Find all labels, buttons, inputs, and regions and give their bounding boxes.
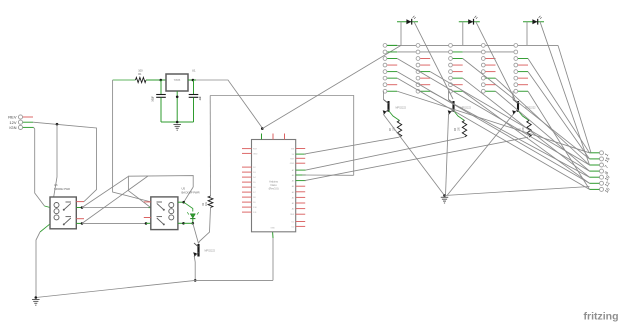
relay U6 pin stub NC2 (red) [76,218,84,220]
connector U3 stub pin 15 (green) [590,158,600,160]
transistor Q7 MPS2222 body [197,244,199,257]
wire segment fan 9 [430,72,589,165]
op-amp U2 Arduino Nano body [252,140,296,232]
svg-text:MPS2222: MPS2222 [205,250,216,253]
wire segment fan 10 [430,91,589,177]
svg-text:10uF: 10uF [152,96,155,102]
wire header bus row1 (gray) [397,44,558,46]
wire header supply bus row1 (green segment) [387,44,397,46]
wire IGN from pin [23,126,34,128]
LED D4 cathode diagonal [540,22,590,165]
wire 12V diagonal to vertical drop [33,122,97,201]
header J3 stub row1 (green) [387,44,397,46]
wire coil+ drop to relay U6 [54,124,58,198]
LED D3 anode drop to bus [462,22,464,46]
svg-text:12: 12 [604,180,611,187]
svg-text:U6: U6 [54,183,58,187]
wire Q2 emitter to ground [446,115,449,196]
wire segment fan 15 [558,45,591,152]
svg-text:7: 7 [604,164,610,169]
wire R2 to Q7 [199,208,211,244]
header J3 stub row7 (red) [387,84,397,86]
transistor Q2 MPS2222 body [452,101,454,112]
connector J2 pin REV [18,115,22,119]
arduino right pin stub D1 [296,221,306,223]
wire segment fan 7 [463,78,590,177]
relay U6 switch top [66,201,72,203]
wire loop into U5 output node [184,187,194,202]
wire regulator GND pin [176,91,178,122]
wire arduino D-pin to R5 base resistor [306,137,464,170]
LED D2 cathode diagonal [414,22,453,99]
arduino right pin stub A2 [296,196,306,198]
relay U5 output pin right upper [178,201,184,203]
arduino left pin stub 11 (red) [242,206,252,208]
wire Q7 emitter to ground rail [193,257,196,281]
header J7 stub row8 (green) [518,90,528,92]
capacitor C2 0.1uF [193,80,195,94]
transistor Q1 MPS2222 body [387,101,389,112]
relay U6 coil return wire to ground [40,224,50,232]
LED D4 anode drop to bus [526,22,528,46]
wire VIN node to header supply bus [262,45,401,128]
svg-text:180: 180 [458,126,460,131]
resistor R4 180 [462,121,466,138]
wire U6 to U5 upper [82,207,149,209]
LED D4 symbol [532,19,537,24]
header J4 stub row5 (green) [420,71,430,73]
relay U5 switch top [157,201,163,203]
header J7 stub row6 (red) [518,77,528,79]
relay U5 body [151,197,178,230]
header J4 pins [416,44,420,94]
connector U3 stub pin 16 (green) [590,188,600,190]
header J6 stub row4 (red) [486,64,496,66]
svg-text:100: 100 [138,69,143,73]
header J5 stub row4 (red) [453,64,463,66]
wire U5 output to LED1 anode [184,202,193,211]
wire header bus row2 [387,51,397,53]
header J7 stub row5 (green) [518,71,528,73]
wire loop top rail [128,176,193,187]
arduino right pin stub 5V [296,153,306,155]
arduino left pin stub 2 (red) [242,152,252,154]
wire VO to arduino VIN [196,80,262,128]
arduino right pin stub GND [296,162,306,164]
wire R1 to VI [146,79,166,81]
wire main ground to display connector [445,187,590,196]
wire header bus row2 continued [463,51,516,53]
arduino left pin stub 6 (red) [242,181,252,183]
wire U6 to U5 lower [82,222,146,224]
header J4 stub row3 (red) [420,58,430,60]
resistor R5 180 [527,121,531,138]
arduino left pin stub 1 (red) [242,148,252,150]
header J3 stub row6 (green) [387,77,397,79]
svg-text:R4: R4 [455,127,457,131]
resistor R1 100 [136,77,147,82]
relay U6 common pin 2 [76,222,82,224]
wire segment fan 2 [528,72,590,159]
LED D3 wire [459,21,480,23]
arduino left pin stub 8 (red) [242,191,252,193]
wire ground rail bottom [36,280,195,297]
svg-text:10k: 10k [205,201,208,206]
wire Q1 emitter to ground [384,115,445,196]
wire segment fan 14 [397,91,589,153]
wire arduino D-pin to R7 base resistor [305,137,528,180]
svg-text:R3: R3 [390,127,392,131]
header J7 stub row3 (green) [518,58,528,60]
connector J2 pin 12V [18,120,22,124]
svg-text:U1: U1 [192,69,196,73]
header J6 stub row7 (red) [486,84,496,86]
svg-text:15: 15 [604,156,611,163]
header J3 stub row8 (green) [387,90,397,92]
arduino left pin stub 9 (red) [242,196,252,198]
wire 12V from pin [23,121,33,123]
header J5 stub row7 (red) [453,84,463,86]
node main ground junction [443,194,446,197]
resistor R2 10k [208,196,213,208]
connector J2 pin IGN [18,125,22,129]
LED D4 wire [523,21,544,23]
arduino left pin stub 12 (red) [242,211,252,213]
header J7 pins [514,44,518,94]
connector U3 stub pin 7 (green) [590,164,600,166]
wire U6 common up to loop [82,176,128,207]
wire loop corner drop to U5 [128,176,150,207]
header J3 stub row3 (green) [387,58,397,60]
arduino right pin stub A7 [296,169,306,171]
connector U3 stub pin 10 (green) [590,176,600,178]
wire segment fan 12 [397,72,589,184]
arduino left pin stub 4 (red) [242,171,252,173]
relay U6 switch bottom [66,216,72,218]
wire supply loop to R2 [210,96,354,176]
connector U3 stub pin 8 (green) [590,170,600,172]
wire segment fan 4 [496,78,590,165]
wire segment fan 11 [397,59,589,172]
arduino left pin stub 3 (red) [242,166,252,168]
header J6 pins [481,44,485,94]
relay U6 body [50,197,76,229]
wire Q1 base link [389,111,400,121]
header J5 stub row5 (red) [453,71,463,73]
header J4 stub row4 (red) [420,64,430,66]
resistor R3 180 [397,121,401,138]
svg-text:16: 16 [604,186,611,193]
arduino top pin 1 (VIN, green) [261,134,263,140]
svg-text:.1uF: .1uF [199,96,202,101]
arduino right pin stub D0 [296,225,306,227]
wire segment fan 1 [528,59,590,153]
header J5 stub row6 (green) [453,77,463,79]
svg-text:MPS2222: MPS2222 [396,107,407,110]
header J3 stub row4 (red) [387,64,397,66]
relay U6 common pin 1 [76,207,82,209]
svg-text:IGN: IGN [9,125,16,130]
relay U5 pin stub left NC2 (red) [144,217,151,219]
wire LED1 cathode junction [192,219,194,224]
svg-text:BACKUP PWR: BACKUP PWR [182,190,200,194]
connector U3 stub pin 12 (green) [590,182,600,184]
LED D3 symbol [468,19,473,24]
wire segment fan 13 [397,78,589,189]
header J6 stub row5 (red) [486,71,496,73]
node 12V coil tap [56,123,59,126]
arduino right pin stub A5 [296,180,306,182]
wire Q3 collector up [512,91,514,99]
header J6 stub row3 (red) [486,58,496,60]
wire arduino D-pin to R3 base resistor [304,137,399,154]
header J4 stub row6 (red) [420,77,430,79]
header J5 stub row3 (green) [453,58,463,60]
wire segment fan 3 [528,91,590,189]
connector U3 display pins [600,151,604,192]
LED D2 anode drop to bus [400,22,402,46]
relay U5 coil [169,203,174,208]
header J4 stub row7 (red) [420,84,430,86]
header J6 stub row8 (green) [486,90,496,92]
ground bottom left [35,296,38,299]
wire U6 common2 up diagonal [82,176,148,223]
arduino right pin stub VIN [296,148,306,150]
wire ground rail under regulator [161,121,194,123]
header J5 stub row8 (green) [453,90,463,92]
relay U6 coil [54,203,59,208]
svg-text:GND: GND [290,163,295,165]
wire VO junction [188,79,196,81]
LED D3 cathode diagonal [476,22,515,99]
LED D2 symbol [406,19,411,24]
relay U5 switch bottom [157,216,163,218]
arduino left pin stub 10 (red) [242,201,252,203]
svg-text:7805: 7805 [174,78,181,82]
arduino right pin stub A0 [296,208,306,210]
header J7 stub row7 (red) [518,84,528,86]
wire regulator input riser [113,79,136,81]
LED LED1 (green) [190,214,195,218]
arduino left pin stub 5 (red) [242,176,252,178]
header J3 stub row5 (green) [387,71,397,73]
wire segment fan 6 [463,59,590,159]
wire segment fan 8 [463,91,590,183]
svg-text:GND: GND [253,153,258,155]
wire Q1 collector up [383,91,385,99]
svg-text:(Rev3.0): (Rev3.0) [269,187,279,191]
wire Q3 emitter to ground [447,115,513,196]
arduino right pin stub A3 [296,191,306,193]
svg-text:Nano: Nano [270,183,277,187]
svg-text:U5: U5 [182,187,186,191]
LED D2 wire [397,21,418,23]
capacitor C1 10uF [160,80,162,94]
wire arduino pin to supply loop (flat) [302,174,354,176]
arduino right pin stub A4 [296,185,306,187]
header J6 stub row6 (green) [486,77,496,79]
header J4 stub row8 (green) [420,90,430,92]
arduino right pin stub A6 [296,174,306,176]
arduino left pin stub 7 (red) [242,186,252,188]
wire IGN drop to relay U6 coil [34,127,45,206]
svg-text:R1: R1 [138,72,142,76]
wire Q2 base link [454,111,465,121]
wire segment fan 5 [496,91,590,171]
header J3 pins [383,44,387,94]
arduino top pin 2 (red) [272,134,274,140]
arduino right pin stub REF [296,213,306,215]
ground under regulator [173,124,181,126]
header J5 pins [449,44,453,94]
relay U5 output pin right lower [178,222,184,224]
wire Q3 base link [518,111,529,121]
op-amp U1 voltage regulator 7805 body [166,74,188,91]
arduino right pin stub RST [296,157,306,159]
connector U3 stub pin 1 (green) [590,152,600,154]
relay U5 pin stub left NC1 (red) [144,201,151,203]
header J7 stub row4 (red) [518,64,528,66]
wire arduino GND drop [272,238,274,280]
arduino top pin 3 (red) [284,134,286,140]
ground main [441,196,449,198]
wire LED1 to transistor Q7 [193,223,199,243]
relay U6 pin stub NC1 (red) [76,201,84,203]
svg-text:GND: GND [270,228,275,230]
svg-text:fritzing: fritzing [584,311,619,322]
svg-text:VIN: VIN [291,149,295,151]
transistor Q3 MPS2222 body [517,101,519,112]
wire REV net (red) [23,116,33,118]
wire header bus row2 green segment [451,51,463,53]
arduino right pin stub A1 [296,202,306,204]
svg-text:Arduino: Arduino [269,180,278,184]
wire Q2 collector up [448,91,450,99]
svg-text:10: 10 [604,174,611,181]
node VI junction [160,79,163,82]
svg-text:SPARE PWR: SPARE PWR [54,187,70,191]
